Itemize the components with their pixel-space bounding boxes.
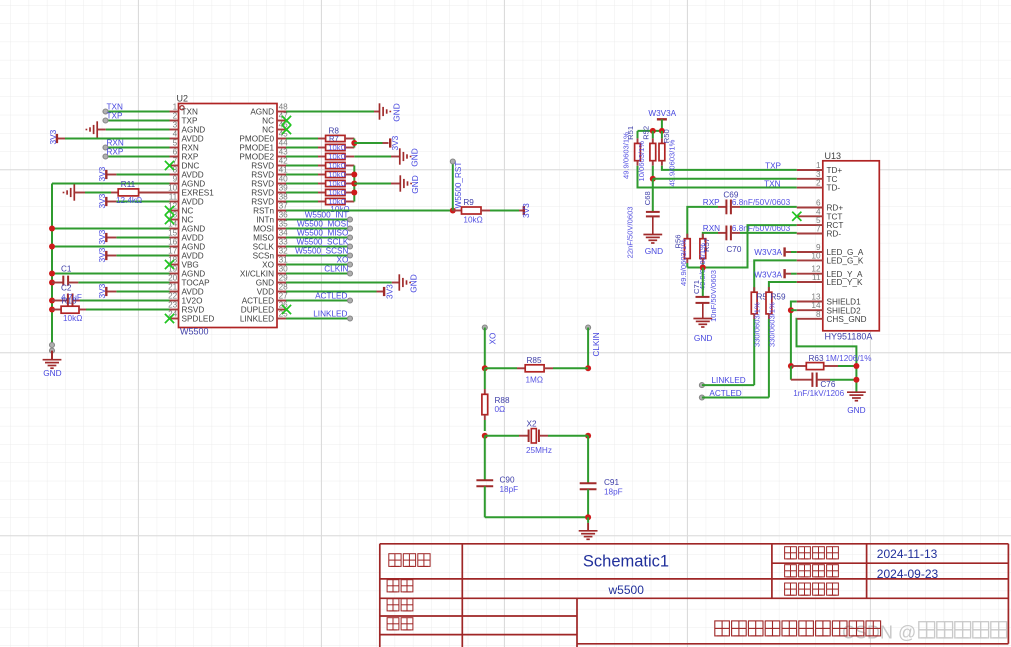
svg-text:AVDD: AVDD bbox=[182, 234, 204, 243]
ground pin29 GND bbox=[286, 282, 392, 284]
resistor R50 49.9 bbox=[661, 131, 663, 139]
svg-text:GND: GND bbox=[392, 103, 402, 121]
power 3V3 pin8 bbox=[116, 174, 169, 176]
svg-text:RSVD: RSVD bbox=[251, 162, 274, 171]
svg-text:22nF/50V/0603: 22nF/50V/0603 bbox=[625, 206, 634, 258]
svg-text:GND: GND bbox=[409, 148, 419, 166]
svg-text:XO: XO bbox=[489, 333, 498, 345]
capacitor C90 18pF bbox=[484, 436, 486, 481]
svg-text:17: 17 bbox=[168, 247, 178, 256]
svg-text:C76: C76 bbox=[820, 380, 835, 389]
resistor R8.4 10k pin41 bbox=[286, 174, 318, 176]
svg-text:33: 33 bbox=[279, 238, 289, 247]
svg-text:EXRES1: EXRES1 bbox=[182, 189, 215, 198]
svg-text:35: 35 bbox=[279, 220, 289, 229]
svg-text:6: 6 bbox=[816, 199, 821, 208]
svg-text:GND: GND bbox=[847, 405, 865, 415]
title block label 物料编码 bbox=[785, 583, 797, 595]
svg-text:CLKIN: CLKIN bbox=[324, 265, 348, 274]
svg-text:13: 13 bbox=[811, 293, 821, 302]
svg-text:12.4kΩ: 12.4kΩ bbox=[116, 196, 142, 205]
wire SHIELD2 stub bbox=[791, 309, 797, 311]
resistor R10 on RSVD pin23 bbox=[49, 307, 55, 313]
svg-text:TXP: TXP bbox=[182, 117, 198, 126]
resistor R52 10 bbox=[652, 131, 654, 139]
svg-text:36: 36 bbox=[279, 211, 289, 220]
svg-text:C68: C68 bbox=[643, 191, 652, 205]
svg-text:6: 6 bbox=[173, 148, 178, 157]
svg-text:AGND: AGND bbox=[182, 270, 206, 279]
svg-text:1M/1206/1%: 1M/1206/1% bbox=[826, 354, 872, 363]
svg-text:10kΩ: 10kΩ bbox=[328, 152, 346, 161]
svg-text:INTn: INTn bbox=[256, 216, 274, 225]
svg-text:44: 44 bbox=[279, 139, 289, 148]
svg-text:TC: TC bbox=[827, 175, 838, 184]
wire node W5500_RST bbox=[452, 162, 454, 211]
svg-text:R11: R11 bbox=[121, 180, 136, 189]
svg-text:U2: U2 bbox=[177, 93, 189, 103]
svg-text:9: 9 bbox=[173, 175, 178, 184]
svg-text:R85: R85 bbox=[527, 356, 542, 365]
svg-text:VBG: VBG bbox=[182, 261, 199, 270]
svg-text:22: 22 bbox=[168, 292, 178, 301]
wire RSVD pulldown bus bbox=[353, 166, 355, 202]
svg-text:MOSI: MOSI bbox=[253, 225, 274, 234]
net label CLKIN bbox=[286, 273, 350, 275]
svg-text:49.9/0603/1%: 49.9/0603/1% bbox=[679, 239, 688, 286]
power 3V3 pin28 VDD bbox=[286, 291, 377, 293]
svg-text:RXP: RXP bbox=[182, 153, 199, 162]
svg-text:TD-: TD- bbox=[827, 184, 841, 193]
title block label 绘制 bbox=[387, 599, 399, 611]
resistor R8.1 10k pin44 bbox=[286, 147, 318, 149]
svg-text:W5500_INT: W5500_INT bbox=[305, 211, 349, 220]
svg-text:C91: C91 bbox=[604, 478, 619, 487]
svg-text:LED_Y_K: LED_Y_K bbox=[827, 278, 863, 287]
ground PMODE2 bbox=[354, 156, 391, 158]
svg-text:Schematic1: Schematic1 bbox=[583, 553, 669, 571]
svg-text:RSVD: RSVD bbox=[251, 171, 274, 180]
svg-text:LINKLED: LINKLED bbox=[313, 310, 347, 319]
resistor R57 49.9 bbox=[702, 234, 704, 239]
svg-text:MISO: MISO bbox=[253, 234, 274, 243]
svg-text:GND: GND bbox=[256, 279, 274, 288]
svg-text:ACTLED: ACTLED bbox=[315, 292, 347, 301]
svg-text:W5500_MOSI: W5500_MOSI bbox=[297, 220, 348, 229]
wire RXN pin5 bbox=[106, 147, 170, 149]
wire RSTn pin37 to R9 bbox=[286, 210, 453, 212]
resistor R8.6 10k pin39 bbox=[286, 192, 318, 194]
ground transformer bbox=[847, 391, 866, 393]
net label W5500_INT bbox=[286, 219, 350, 221]
svg-text:3V3: 3V3 bbox=[385, 284, 395, 299]
capacitor C69 6.8nF bbox=[687, 207, 718, 239]
svg-text:C2: C2 bbox=[61, 284, 72, 293]
svg-text:PMODE1: PMODE1 bbox=[239, 144, 274, 153]
title block label 原理图 bbox=[389, 554, 401, 567]
svg-text:29: 29 bbox=[279, 274, 289, 283]
svg-text:5: 5 bbox=[173, 139, 178, 148]
svg-text:20: 20 bbox=[168, 274, 178, 283]
power 3V3 pin11 bbox=[116, 201, 169, 203]
svg-text:3V3: 3V3 bbox=[521, 203, 531, 218]
svg-text:X2: X2 bbox=[527, 419, 537, 428]
svg-text:4: 4 bbox=[173, 130, 178, 139]
resistor R8.2 10k pin43 bbox=[286, 156, 318, 158]
svg-text:23: 23 bbox=[168, 301, 178, 310]
svg-text:3: 3 bbox=[816, 170, 821, 179]
power 3V3 pin21 bbox=[116, 291, 169, 293]
svg-text:10kΩ: 10kΩ bbox=[63, 314, 82, 323]
svg-text:R10: R10 bbox=[62, 296, 77, 305]
svg-text:C90: C90 bbox=[500, 476, 515, 485]
wire TXP pin2 bbox=[106, 120, 170, 122]
capacitor C68 22nF bbox=[652, 179, 654, 212]
svg-text:VDD: VDD bbox=[257, 288, 274, 297]
resistor R85 1M bbox=[482, 365, 488, 371]
svg-text:PMODE0: PMODE0 bbox=[239, 135, 274, 144]
svg-text:w5500: w5500 bbox=[608, 583, 645, 597]
svg-text:RXP: RXP bbox=[703, 198, 720, 207]
svg-text:10: 10 bbox=[811, 251, 821, 260]
svg-text:NC: NC bbox=[182, 207, 194, 216]
net label ACTLED right bbox=[699, 395, 704, 400]
svg-text:1: 1 bbox=[816, 161, 821, 170]
IC U2 W5500 body bbox=[179, 104, 278, 328]
svg-text:SHIELD1: SHIELD1 bbox=[827, 298, 862, 307]
ground bus GND symbol bbox=[50, 343, 55, 348]
svg-text:10: 10 bbox=[168, 184, 178, 193]
capacitor C91 18pF bbox=[587, 436, 589, 484]
svg-text:1MΩ: 1MΩ bbox=[526, 375, 544, 384]
svg-text:AVDD: AVDD bbox=[182, 288, 204, 297]
no-connect X on U13 TCT bbox=[792, 212, 801, 221]
svg-text:AGND: AGND bbox=[182, 180, 206, 189]
power 3V3 pin15 bbox=[116, 237, 169, 239]
svg-text:AGND: AGND bbox=[250, 108, 274, 117]
net label XO bbox=[286, 264, 350, 266]
capacitor C71 10nF bbox=[702, 268, 704, 297]
svg-text:RXN: RXN bbox=[182, 144, 199, 153]
svg-text:CSDN @: CSDN @ bbox=[842, 623, 916, 643]
svg-text:RSVD: RSVD bbox=[251, 180, 274, 189]
svg-text:39: 39 bbox=[279, 184, 289, 193]
svg-text:11: 11 bbox=[812, 273, 821, 282]
svg-text:10kΩ: 10kΩ bbox=[328, 170, 346, 179]
svg-text:W3V3A: W3V3A bbox=[648, 109, 676, 118]
svg-text:16: 16 bbox=[168, 238, 178, 247]
svg-text:1nF/1kV/1206: 1nF/1kV/1206 bbox=[793, 389, 844, 398]
svg-text:HY951180A: HY951180A bbox=[825, 331, 873, 341]
svg-text:6.8nF/50V/0603: 6.8nF/50V/0603 bbox=[732, 198, 791, 207]
svg-text:2024-11-13: 2024-11-13 bbox=[877, 547, 938, 561]
svg-text:TXP: TXP bbox=[107, 112, 123, 121]
resistor R8.5 10k pin40 bbox=[286, 183, 318, 185]
resistor R58 330 bbox=[753, 287, 755, 292]
svg-text:AGND: AGND bbox=[182, 126, 206, 135]
svg-text:10kΩ: 10kΩ bbox=[328, 143, 346, 152]
svg-text:RSVD: RSVD bbox=[182, 306, 205, 315]
svg-text:27: 27 bbox=[279, 292, 289, 301]
svg-text:TOCAP: TOCAP bbox=[182, 279, 211, 288]
svg-text:30: 30 bbox=[279, 265, 289, 274]
svg-text:W5500_SCSN: W5500_SCSN bbox=[295, 247, 348, 256]
svg-text:3V3: 3V3 bbox=[97, 283, 107, 298]
wire LED_G_K to R58 bbox=[754, 260, 797, 292]
svg-text:AVDD: AVDD bbox=[182, 135, 204, 144]
capacitor C2 on 1V2O pin22 bbox=[49, 298, 55, 304]
svg-text:10/0603/1%: 10/0603/1% bbox=[637, 141, 646, 182]
svg-text:330/0603/1%: 330/0603/1% bbox=[753, 302, 762, 347]
svg-text:ACTLED: ACTLED bbox=[242, 297, 274, 306]
svg-text:LED_G_K: LED_G_K bbox=[827, 257, 864, 266]
svg-text:SCLK: SCLK bbox=[253, 243, 275, 252]
svg-text:SPDLED: SPDLED bbox=[182, 315, 215, 324]
resistor R51 49.9 bbox=[637, 131, 639, 139]
svg-text:AGND: AGND bbox=[182, 225, 206, 234]
svg-text:TCT: TCT bbox=[827, 212, 843, 221]
svg-text:NC: NC bbox=[262, 126, 274, 135]
ground bus vertical wire bbox=[51, 184, 53, 346]
wire pin16 AGND to bus bbox=[52, 246, 170, 248]
svg-text:10nF/50V/0603: 10nF/50V/0603 bbox=[709, 270, 718, 322]
svg-text:W3V3A: W3V3A bbox=[754, 270, 782, 279]
net label W5500_SCSN bbox=[286, 255, 350, 257]
title block label 图页 bbox=[387, 580, 399, 592]
wire CHS_GND bbox=[797, 319, 857, 392]
svg-text:31: 31 bbox=[279, 256, 289, 265]
net label W5500_SCLK bbox=[286, 246, 350, 248]
svg-text:40: 40 bbox=[279, 175, 289, 184]
svg-text:AGND: AGND bbox=[182, 243, 206, 252]
ground crystal bbox=[587, 517, 589, 523]
resistor R8.0 10k pin45 bbox=[286, 138, 318, 140]
svg-text:R59: R59 bbox=[771, 292, 786, 301]
svg-text:41: 41 bbox=[279, 166, 289, 175]
svg-text:10kΩ: 10kΩ bbox=[463, 216, 482, 225]
svg-text:R9: R9 bbox=[463, 198, 474, 207]
wire pin14 AGND to bus bbox=[52, 228, 170, 230]
svg-text:25: 25 bbox=[279, 310, 289, 319]
wire pin9 AGND to bus bbox=[52, 183, 170, 185]
svg-text:GND: GND bbox=[645, 246, 663, 256]
U13 pin stubs + numbers + names bbox=[797, 169, 823, 171]
svg-text:3V3: 3V3 bbox=[97, 247, 107, 262]
node CLKIN crystal bbox=[586, 325, 591, 330]
svg-text:TXN: TXN bbox=[182, 108, 198, 117]
svg-text:25MHz: 25MHz bbox=[526, 446, 552, 455]
svg-text:C71: C71 bbox=[692, 280, 701, 294]
svg-text:21: 21 bbox=[168, 283, 178, 292]
svg-text:C1: C1 bbox=[61, 265, 72, 274]
svg-text:W5500_SCLK: W5500_SCLK bbox=[297, 238, 349, 247]
svg-text:37: 37 bbox=[279, 202, 289, 211]
capacitor C1 on TOCAP pin20 bbox=[49, 280, 55, 286]
svg-text:38: 38 bbox=[279, 193, 289, 202]
svg-text:3V3: 3V3 bbox=[97, 166, 107, 181]
svg-text:48: 48 bbox=[279, 103, 289, 112]
svg-text:28: 28 bbox=[279, 283, 289, 292]
svg-text:43: 43 bbox=[279, 148, 289, 157]
svg-text:10kΩ: 10kΩ bbox=[328, 179, 346, 188]
capacitor C70 6.8nF bbox=[703, 233, 718, 239]
svg-text:3V3: 3V3 bbox=[390, 135, 400, 150]
wire RXP pin6 bbox=[106, 156, 170, 158]
title block label 创建日期 bbox=[785, 565, 797, 577]
resistor R59 330 bbox=[768, 287, 770, 292]
svg-text:R52: R52 bbox=[642, 126, 651, 140]
net label W5500_MOSI bbox=[286, 228, 350, 230]
svg-text:XO: XO bbox=[337, 256, 349, 265]
svg-text:NC: NC bbox=[182, 216, 194, 225]
svg-text:19: 19 bbox=[168, 265, 178, 274]
net label W5500_MISO bbox=[286, 237, 350, 239]
svg-text:7: 7 bbox=[816, 225, 821, 234]
ground RSVD pins bbox=[354, 183, 391, 185]
svg-text:RXN: RXN bbox=[107, 139, 124, 148]
svg-text:45: 45 bbox=[279, 130, 289, 139]
resistor R63 1M bbox=[788, 363, 794, 369]
wire TC center tap bbox=[653, 178, 797, 180]
svg-text:W3V3A: W3V3A bbox=[754, 248, 782, 257]
svg-text:GND: GND bbox=[694, 333, 712, 343]
svg-text:R7: R7 bbox=[329, 134, 339, 143]
svg-text:11: 11 bbox=[169, 193, 178, 202]
svg-text:8: 8 bbox=[816, 310, 821, 319]
svg-text:R63: R63 bbox=[809, 354, 824, 363]
power 3V3 pin4 AVDD bbox=[65, 138, 170, 140]
svg-text:AVDD: AVDD bbox=[182, 198, 204, 207]
net label LINKLED right bbox=[699, 383, 704, 388]
title block table lines bbox=[380, 544, 1009, 647]
svg-text:GND: GND bbox=[409, 274, 419, 292]
svg-text:AVDD: AVDD bbox=[182, 252, 204, 261]
svg-text:RD+: RD+ bbox=[827, 204, 844, 213]
svg-text:3: 3 bbox=[173, 121, 178, 130]
svg-text:LINKLED: LINKLED bbox=[240, 315, 274, 324]
svg-text:2: 2 bbox=[816, 179, 821, 188]
svg-text:18pF: 18pF bbox=[604, 488, 623, 497]
net label ACTLED bbox=[286, 300, 350, 302]
ground pin48 AGND bbox=[286, 111, 374, 113]
resistor R56 49.9 bbox=[686, 234, 688, 239]
wire W3V3A node bbox=[638, 130, 662, 132]
svg-text:RSTn: RSTn bbox=[253, 207, 274, 216]
power 3V3 pin17 bbox=[116, 255, 169, 257]
svg-text:ACTLED: ACTLED bbox=[709, 389, 741, 398]
ground pin3 AGND bbox=[106, 129, 170, 131]
svg-text:10kΩ: 10kΩ bbox=[328, 161, 346, 170]
U2 right pin stubs bbox=[277, 111, 286, 113]
title block label 更新日期 bbox=[785, 547, 797, 559]
svg-text:PMODE2: PMODE2 bbox=[239, 153, 274, 162]
node XO crystal bbox=[482, 325, 487, 330]
svg-text:W5500: W5500 bbox=[180, 327, 209, 337]
svg-text:GND: GND bbox=[43, 368, 61, 378]
svg-text:1: 1 bbox=[173, 103, 178, 112]
svg-text:18pF: 18pF bbox=[500, 485, 519, 494]
svg-text:C70: C70 bbox=[726, 245, 741, 254]
wire RCT to termination bbox=[687, 225, 797, 267]
svg-text:RXN: RXN bbox=[703, 224, 720, 233]
svg-text:TD+: TD+ bbox=[827, 166, 843, 175]
svg-text:LINKLED: LINKLED bbox=[712, 376, 746, 385]
svg-text:RD-: RD- bbox=[827, 230, 842, 239]
svg-text:W5500_MISO: W5500_MISO bbox=[297, 229, 348, 238]
wire PMODE0/1 to 3V3 bbox=[353, 139, 355, 148]
svg-text:DUPLED: DUPLED bbox=[241, 306, 274, 315]
svg-text:34: 34 bbox=[279, 229, 289, 238]
svg-text:CLKIN: CLKIN bbox=[592, 332, 601, 356]
crystal X2 25MHz bbox=[482, 433, 488, 439]
svg-text:XI/CLKIN: XI/CLKIN bbox=[240, 270, 274, 279]
svg-text:4: 4 bbox=[816, 207, 821, 216]
svg-text:330/0603/1%: 330/0603/1% bbox=[767, 302, 776, 347]
wire LED_Y_K to R59 bbox=[769, 282, 797, 292]
resistor R88 0ohm bbox=[484, 368, 486, 389]
title 多功能智能移动机器人 bbox=[715, 621, 730, 636]
svg-text:2: 2 bbox=[173, 112, 178, 121]
svg-text:TXP: TXP bbox=[765, 161, 781, 170]
svg-text:3V3: 3V3 bbox=[48, 129, 58, 144]
svg-text:R88: R88 bbox=[495, 396, 510, 405]
svg-text:CHS_GND: CHS_GND bbox=[827, 315, 867, 324]
resistor R9 10k bbox=[453, 210, 462, 212]
svg-text:RXP: RXP bbox=[107, 148, 124, 157]
no-connect X marks on U2 pins 7,12,13,18,24,47,46,26 bbox=[165, 161, 174, 170]
U2 left pin stubs + numbers + names bbox=[170, 111, 179, 113]
svg-text:2024-09-23: 2024-09-23 bbox=[877, 567, 939, 581]
resistor R8.7 10k pin38 bbox=[286, 201, 318, 203]
svg-text:42: 42 bbox=[279, 157, 289, 166]
svg-text:TXN: TXN bbox=[107, 103, 123, 112]
svg-text:AVDD: AVDD bbox=[182, 171, 204, 180]
wire SHIELD1 SHIELD2 bbox=[791, 302, 797, 367]
svg-text:W5500_RST: W5500_RST bbox=[454, 162, 463, 209]
wire pin19 AGND to bus bbox=[52, 273, 170, 275]
svg-text:14: 14 bbox=[168, 220, 178, 229]
wire TXN pin1 bbox=[106, 111, 170, 113]
svg-text:RSVD: RSVD bbox=[251, 189, 274, 198]
svg-text:XO: XO bbox=[262, 261, 274, 270]
wire crystal bottom bbox=[485, 516, 588, 518]
U2 pin1 marker bbox=[180, 106, 184, 110]
svg-text:10kΩ: 10kΩ bbox=[328, 188, 346, 197]
svg-text:SCSn: SCSn bbox=[253, 252, 275, 261]
svg-text:32: 32 bbox=[279, 247, 289, 256]
svg-text:GND: GND bbox=[410, 175, 420, 193]
svg-text:U13: U13 bbox=[825, 151, 842, 161]
svg-text:1V2O: 1V2O bbox=[182, 297, 203, 306]
svg-text:3V3: 3V3 bbox=[97, 193, 107, 208]
svg-text:3V3: 3V3 bbox=[97, 229, 107, 244]
transformer U13 HY951180A body bbox=[823, 161, 880, 331]
svg-text:DNC: DNC bbox=[182, 162, 200, 171]
svg-text:49.9/0603/1%: 49.9/0603/1% bbox=[622, 132, 631, 179]
svg-text:RSVD: RSVD bbox=[251, 198, 274, 207]
resistor R8.3 10k pin42 bbox=[286, 165, 318, 167]
capacitor C76 1nF bbox=[790, 366, 792, 380]
svg-text:0Ω: 0Ω bbox=[495, 405, 506, 414]
resistor R11 12.4k on EXRES1 bbox=[73, 184, 75, 200]
svg-text:15: 15 bbox=[168, 229, 178, 238]
net label LINKLED bbox=[286, 318, 350, 320]
svg-text:NC: NC bbox=[262, 117, 274, 126]
title block label 审阅 bbox=[387, 618, 399, 630]
svg-text:TXN: TXN bbox=[764, 179, 780, 188]
